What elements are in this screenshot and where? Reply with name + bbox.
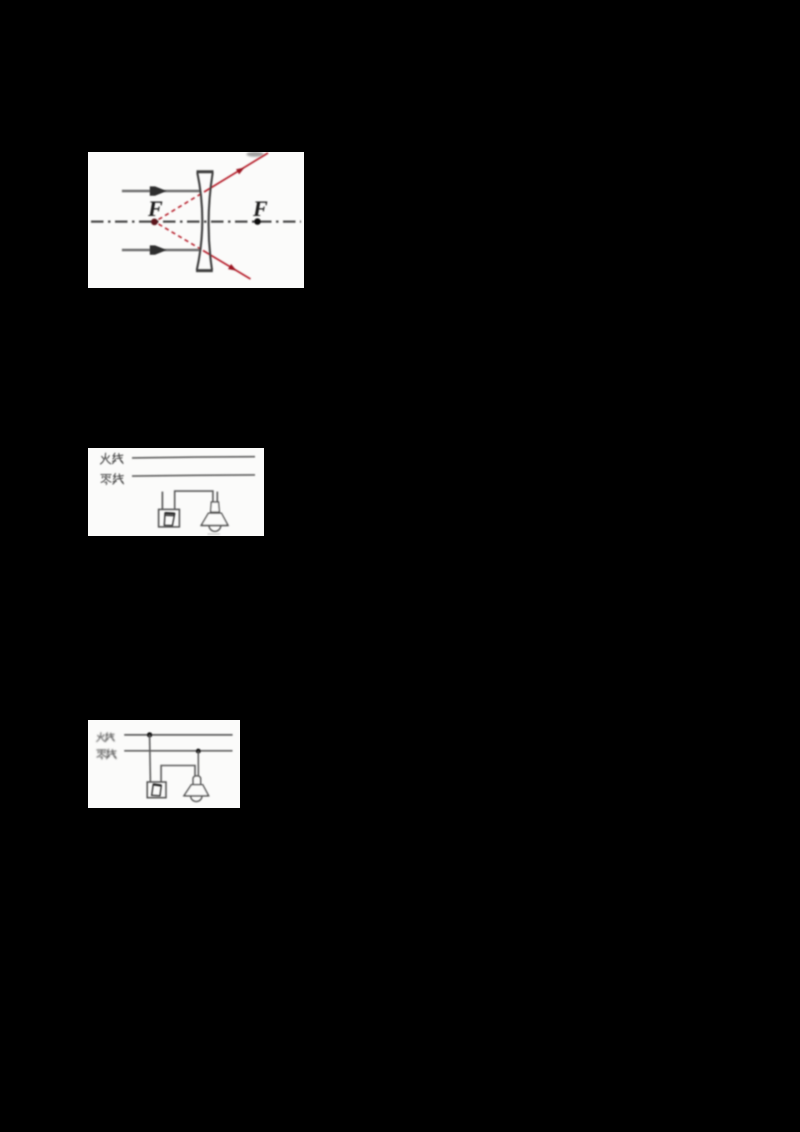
lamp bulb xyxy=(191,796,202,802)
lamp rim xyxy=(184,795,209,797)
wire from switch over to lamp xyxy=(161,766,195,783)
label 零线 (neutral wire) xyxy=(97,750,106,759)
panel 1 : concave lens ray diagram xyxy=(88,152,304,288)
live wire line xyxy=(132,457,255,458)
neutral wire line xyxy=(124,750,232,752)
incoming parallel ray (top) xyxy=(122,190,201,192)
concave lens body xyxy=(196,172,214,271)
lamp lead (dangling, right) xyxy=(216,492,218,503)
red arrowhead on lower refracted ray xyxy=(228,264,238,273)
lamp socket xyxy=(211,502,220,512)
incoming parallel ray (bottom) xyxy=(122,249,200,251)
label 零线 (neutral wire) xyxy=(101,475,111,485)
red refracted ray (lower) xyxy=(203,251,251,280)
lamp socket xyxy=(193,776,201,785)
faint photo smudge below bulb xyxy=(208,533,221,535)
live wire line xyxy=(124,734,232,736)
lamp bulb xyxy=(209,526,221,532)
junction dot on live wire xyxy=(147,732,152,737)
label 火线 (live wire) xyxy=(97,733,106,742)
switch rocker xyxy=(164,513,174,526)
svg-text:F: F xyxy=(252,196,268,221)
wire from live junction down to switch xyxy=(149,735,152,782)
neutral wire line xyxy=(132,475,255,476)
wire from neutral junction down to lamp xyxy=(197,751,199,776)
arrowhead on bottom incoming ray xyxy=(150,245,167,254)
arrowhead on top incoming ray xyxy=(150,186,167,195)
junction dot on neutral wire xyxy=(196,749,201,754)
red refracted ray (upper), exits top right xyxy=(204,153,268,192)
panel 3 : completed wiring diagram (switch to live, lamp to neutral) xyxy=(88,720,240,808)
red dashed backward extension (lower) xyxy=(159,224,204,251)
svg-text:F: F xyxy=(147,196,163,221)
left focal point F dot (dark red) xyxy=(151,219,158,226)
switch lead (dangling, left) xyxy=(161,492,163,510)
lamp shade xyxy=(201,513,228,525)
switch box xyxy=(159,509,180,527)
right focal point F dot xyxy=(254,218,261,225)
red arrowhead on upper refracted ray xyxy=(236,165,246,174)
wire from switch over to lamp xyxy=(175,491,213,509)
label 火线 (live wire) xyxy=(101,453,111,464)
lamp rim xyxy=(201,525,228,527)
optical axis (dash-dot principal axis) xyxy=(91,220,301,222)
lamp shade xyxy=(184,785,209,796)
switch rocker xyxy=(152,784,162,795)
smudge at top where refracted ray exits xyxy=(247,152,264,157)
panel 2 : incomplete wiring diagram (switch + lamp with dangling leads) xyxy=(88,448,264,536)
red dashed backward extension (upper) xyxy=(159,192,205,220)
switch box xyxy=(147,782,166,798)
